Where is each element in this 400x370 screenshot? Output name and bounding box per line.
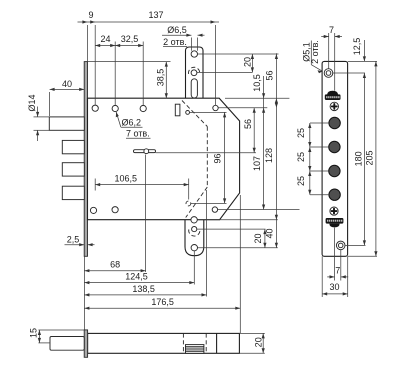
latch stack block — [186, 345, 204, 354]
arrow — [335, 35, 340, 38]
stripe — [186, 348, 204, 350]
divider line — [216, 333, 218, 353]
dim line 180 — [363, 73, 365, 245]
ext body right down — [239, 195, 241, 333]
leader keyhole center — [156, 152, 256, 154]
arrow — [253, 148, 256, 153]
arrow — [262, 333, 265, 338]
arrow — [318, 70, 323, 73]
arrow — [165, 93, 168, 98]
dim 20 ext bottom — [239, 352, 264, 354]
bottom tab hole (Ø6,5) — [191, 245, 197, 251]
keyhole (double-bit key slot) — [134, 149, 156, 154]
dim line 25 chain — [309, 123, 311, 195]
big hole 4 — [329, 189, 340, 200]
dim line 40 — [50, 88, 85, 90]
dim line 176,5 — [84, 307, 240, 309]
svg-text:20: 20 — [254, 337, 264, 347]
svg-text:180: 180 — [353, 151, 363, 166]
ext lines Ø14 — [34, 116, 50, 118]
leader tab hole 219.7 — [197, 219, 277, 221]
dim 7 top left seg — [321, 36, 329, 38]
bolt tip — [50, 337, 84, 351]
top mounting tab — [186, 47, 204, 98]
arrow — [263, 243, 266, 248]
svg-text:7: 7 — [335, 265, 340, 275]
hidden outline dashed vertical — [206, 127, 208, 188]
hidden line dashed — [182, 333, 184, 353]
tab slot — [191, 79, 197, 98]
arrow — [341, 275, 346, 278]
logo emblem top — [325, 91, 341, 100]
arrow — [95, 183, 100, 186]
leader tab hole 229.1 — [197, 228, 266, 230]
svg-text:24: 24 — [100, 34, 110, 44]
arrow — [38, 330, 41, 335]
ext line hole col 143.2 — [142, 42, 144, 106]
dim line 106,5 — [95, 184, 189, 186]
bottom tab hidden circle (dashed) — [189, 229, 200, 236]
svg-text:38,5: 38,5 — [155, 69, 165, 87]
arrow — [38, 338, 41, 343]
dim 15 ext top — [38, 329, 84, 331]
ext 138,5 column — [206, 190, 208, 297]
svg-text:20: 20 — [243, 57, 253, 67]
plate top ext right — [348, 60, 377, 62]
ext plate top for 38,5 — [88, 61, 171, 63]
dim Ø6,5 underline+arrows — [162, 34, 191, 36]
svg-text:Ø6,5: Ø6,5 — [167, 25, 187, 35]
hole top leader right — [333, 72, 365, 74]
arrow — [79, 243, 84, 246]
leader tab top hole right — [198, 53, 279, 55]
arrow — [251, 54, 254, 59]
ext lines tab hole Ø6,5 — [190, 38, 192, 51]
dim line 10,5 + 107 — [263, 76, 265, 210]
arrow — [165, 62, 168, 67]
tab hole top (Ø6,5) — [191, 51, 197, 57]
dashed hidden hole (96-dim bottom ref) — [186, 201, 191, 206]
arrow — [262, 93, 265, 98]
arrow — [308, 142, 311, 147]
arrow — [50, 88, 55, 91]
svg-text:9: 9 — [88, 10, 93, 20]
arrow — [84, 293, 89, 296]
hole bottom leader right — [345, 244, 365, 246]
dim line 56 / 128 / 40 column — [275, 53, 277, 247]
svg-text:32,5: 32,5 — [121, 34, 139, 44]
arrow — [90, 20, 95, 23]
svg-text:25: 25 — [296, 176, 306, 186]
ext center col bottom — [334, 228, 336, 281]
arrow — [95, 44, 100, 47]
tab small hole — [191, 70, 197, 76]
big hole 2 — [329, 141, 340, 152]
arrow — [253, 108, 256, 113]
leader tab hole 247.7 — [198, 247, 278, 249]
faceplate outline — [322, 61, 348, 256]
tiny hole (96-dim top ref) — [186, 111, 190, 115]
arrow — [198, 34, 203, 37]
underline — [121, 126, 143, 128]
phillips screw bottom — [330, 207, 338, 215]
body hole row 2 — [90, 207, 96, 213]
svg-text:137: 137 — [148, 10, 163, 20]
dim 15 ext bottom — [38, 342, 50, 344]
svg-text:107: 107 — [252, 156, 262, 171]
dim line 38,5 — [165, 62, 167, 99]
arrow — [363, 56, 366, 61]
arrow — [324, 35, 329, 38]
arrow — [275, 103, 278, 108]
small rectangular slot — [175, 104, 180, 116]
ext faceplate down — [83, 256, 85, 329]
arrow — [110, 44, 115, 47]
arrow — [262, 205, 265, 210]
dim 40 (bolt) — [49, 92, 51, 116]
leader — [310, 194, 329, 196]
leader to hole — [311, 65, 322, 72]
ext center col — [334, 33, 336, 91]
96 top leader — [190, 111, 227, 113]
arrow — [308, 123, 311, 128]
svg-text:Ø6,2: Ø6,2 — [122, 118, 142, 128]
right segment — [88, 244, 95, 246]
dim 7 bottom left seg — [327, 276, 334, 278]
svg-text:2,5: 2,5 — [67, 235, 80, 245]
leader — [310, 170, 329, 172]
dim line 30 — [322, 293, 348, 295]
bolt 3 — [62, 163, 84, 176]
svg-text:25: 25 — [296, 152, 306, 162]
dim line 9 / 137 — [78, 21, 220, 23]
hidden outline dashed diagonal lower — [186, 187, 208, 218]
svg-text:96: 96 — [213, 153, 223, 163]
arrow — [189, 281, 194, 284]
ext 30 left — [321, 256, 323, 297]
hole row leader right — [218, 107, 267, 109]
ext hole col bottom — [340, 250, 342, 281]
96 bottom leader — [191, 202, 227, 204]
stripe — [186, 346, 204, 348]
dim 7 top right seg — [335, 36, 342, 38]
ext line hole col 115.2 — [114, 42, 116, 106]
arrow — [116, 112, 119, 117]
arrow — [202, 293, 207, 296]
arrow — [36, 130, 39, 135]
underline — [126, 137, 151, 139]
svg-text:10,5: 10,5 — [252, 74, 262, 92]
arrow — [235, 307, 240, 310]
stripe — [186, 350, 204, 352]
arrow — [343, 292, 348, 295]
hole — [140, 105, 146, 111]
arrow — [84, 269, 89, 272]
ext tab bottom hole down — [193, 251, 195, 284]
arrow — [84, 307, 89, 310]
body (case) — [88, 333, 240, 353]
phillips screw top — [330, 102, 338, 110]
arrow — [322, 292, 327, 295]
svg-text:25: 25 — [296, 128, 306, 138]
countersunk hole bottom inner — [338, 243, 343, 248]
bottom mounting tab — [185, 220, 204, 256]
arrow — [138, 44, 143, 47]
arrow — [263, 229, 266, 234]
arrow — [308, 171, 311, 176]
dim line 2,5 — [65, 244, 85, 246]
arrow — [115, 44, 120, 47]
arrow — [275, 98, 278, 103]
svg-text:15: 15 — [28, 328, 38, 338]
ext line hole col 95.2 — [94, 25, 96, 105]
hole row2 leader right — [218, 209, 300, 211]
arrow — [184, 183, 189, 186]
hole — [112, 207, 118, 213]
dim 20 ext top — [239, 332, 264, 334]
arrow — [363, 73, 366, 78]
dim line 68 — [84, 270, 145, 272]
ext line hole col 215.5 — [215, 25, 217, 105]
bottom tab hole at body edge — [191, 217, 197, 223]
arrow — [251, 67, 254, 72]
dim line 15 — [38, 330, 40, 343]
svg-text:30: 30 — [329, 282, 339, 292]
ext keyhole down — [145, 155, 147, 273]
ext screw col — [328, 33, 330, 69]
svg-text:2 отв.: 2 отв. — [163, 37, 187, 47]
arrow — [88, 243, 93, 246]
bolt 4 — [62, 186, 84, 199]
svg-text:124,5: 124,5 — [125, 272, 148, 282]
leader tab small hole right — [197, 71, 253, 73]
arrow — [223, 198, 226, 203]
dim 106,5 ext left — [94, 179, 96, 191]
arrow — [374, 251, 377, 256]
dim line 205 — [375, 61, 377, 256]
arrow — [141, 269, 146, 272]
arrow — [223, 112, 226, 117]
dim line 124,5 — [84, 282, 194, 284]
arrow — [262, 348, 265, 353]
arrow — [308, 190, 311, 195]
arrow — [211, 20, 216, 23]
countersunk hole top outer — [324, 69, 333, 78]
dim 12,5 upper seg — [363, 40, 365, 61]
dim 7 bottom right seg — [341, 276, 348, 278]
arrow — [275, 54, 278, 59]
svg-text:7: 7 — [329, 25, 334, 35]
dim line 20 bottom-right — [264, 229, 266, 248]
svg-text:205: 205 — [365, 150, 375, 165]
dim line 24 / 32,5 — [95, 45, 143, 47]
ext — [34, 129, 50, 131]
hole near top-right — [213, 105, 218, 110]
dim line Ø14 upper — [37, 107, 39, 117]
svg-text:128: 128 — [264, 148, 274, 163]
svg-text:56: 56 — [243, 119, 253, 129]
ext line plate-left for dim 9 — [86, 25, 88, 62]
dim line 20 — [262, 333, 264, 353]
arrow — [262, 108, 265, 113]
faceplate (edge view, gray bar) — [84, 62, 87, 257]
svg-text:20: 20 — [253, 233, 263, 243]
bolt 2 — [62, 140, 84, 153]
hidden line dashed — [205, 333, 207, 353]
plate bottom ext right — [348, 255, 377, 257]
svg-text:68: 68 — [110, 260, 120, 270]
dim Ø6,2 leader — [116, 112, 121, 127]
arrow — [82, 20, 87, 23]
ext right — [188, 179, 190, 200]
big hole 3 — [329, 165, 340, 176]
hole near bottom-right — [212, 207, 217, 212]
bolt 1 (top, long) — [49, 117, 84, 130]
arrow — [275, 215, 278, 220]
arrow — [36, 112, 39, 117]
body hole row 1 — [92, 105, 98, 111]
arrow — [363, 240, 366, 245]
arrow — [84, 281, 89, 284]
big hole 1 — [329, 117, 340, 128]
ext — [197, 38, 199, 51]
faceplate bar — [84, 330, 87, 357]
hidden outline dashed diagonal upper — [182, 101, 207, 127]
svg-text:138,5: 138,5 — [132, 284, 155, 294]
ext 30 right — [347, 256, 349, 297]
underline (rotated) — [310, 41, 312, 65]
arrow — [79, 88, 84, 91]
arrow segment right — [198, 34, 205, 36]
dim line 20 right-top — [251, 54, 253, 72]
arrow — [186, 34, 191, 37]
hole — [112, 105, 118, 111]
underline 2 отв. — [163, 46, 187, 48]
svg-text:40: 40 — [62, 79, 72, 89]
dim line Ø14 lower — [37, 130, 39, 141]
body top ext right — [225, 97, 289, 99]
svg-text:106,5: 106,5 — [115, 174, 138, 184]
leader — [310, 146, 329, 148]
arrow — [308, 147, 311, 152]
lock body outline — [88, 98, 240, 220]
dim line 138,5 — [84, 294, 206, 296]
countersunk hole bottom outer — [336, 241, 345, 250]
svg-text:176,5: 176,5 — [151, 297, 174, 307]
logo emblem bottom (mirrored) — [326, 218, 344, 227]
dim line 56 second — [253, 108, 255, 153]
arrow — [374, 61, 377, 66]
countersunk hole top inner — [326, 71, 331, 76]
svg-text:12,5: 12,5 — [352, 38, 362, 56]
svg-text:7 отв.: 7 отв. — [126, 128, 150, 138]
arrow — [330, 275, 335, 278]
tab hidden circle (dashed) — [189, 67, 200, 74]
dim line 96 — [224, 112, 226, 203]
arrow — [308, 166, 311, 171]
svg-text:56: 56 — [264, 70, 274, 80]
big hole leaders left — [310, 122, 329, 124]
arrow — [275, 243, 278, 248]
bottom tab small hole — [192, 227, 197, 232]
svg-text:2 отв.: 2 отв. — [310, 40, 320, 64]
svg-text:Ø14: Ø14 — [27, 94, 37, 111]
